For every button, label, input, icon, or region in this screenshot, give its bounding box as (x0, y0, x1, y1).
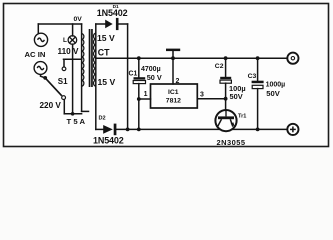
transistor Q1 2N3055 (215, 110, 236, 131)
svg-text:1000µ: 1000µ (266, 81, 286, 88)
output terminal 0V (287, 53, 298, 64)
svg-text:T 5 A: T 5 A (67, 117, 86, 126)
lamp L (68, 36, 77, 45)
svg-text:15 V: 15 V (98, 77, 116, 87)
svg-text:3: 3 (200, 91, 204, 98)
output terminal plus (287, 124, 298, 135)
wire 110V tap (64, 58, 82, 60)
capacitor C2 (220, 77, 231, 79)
wire ground stem (172, 51, 174, 58)
svg-text:Tr1: Tr1 (238, 113, 246, 119)
svg-text:CT: CT (98, 48, 110, 58)
svg-text:0V: 0V (74, 16, 83, 23)
svg-text:AC IN: AC IN (25, 50, 46, 59)
wire D2 anode (96, 128, 103, 130)
wire C2 branch upper (225, 58, 227, 77)
wire D1 anode (96, 23, 105, 25)
wire bottom AC riser (41, 75, 46, 78)
wire lamp branch upper (72, 24, 74, 36)
svg-text:1N5402: 1N5402 (97, 8, 128, 18)
wire C1 branch upper (138, 58, 140, 77)
wire secondary baseline (95, 24, 97, 129)
svg-text:50V: 50V (230, 92, 243, 101)
junction bottom-C3 (256, 127, 260, 131)
wire 110V contact stub (63, 59, 65, 67)
wire bottom rail left (116, 128, 220, 130)
diode D1 (105, 18, 118, 30)
transformer T1 secondary winding (94, 33, 96, 86)
junction pin1 (137, 97, 141, 101)
svg-text:50 V: 50 V (147, 73, 162, 82)
wire primary bottom corner (82, 110, 89, 112)
wire D1 cathode (118, 23, 127, 25)
wire top rail 0V (96, 57, 287, 59)
wire base riser (225, 99, 227, 111)
AC source G1 (34, 33, 47, 46)
wire 0V top (38, 23, 81, 25)
junction bottom-D1 (126, 127, 130, 131)
svg-text:110 V: 110 V (58, 47, 79, 56)
junction bottom-C1 (137, 127, 141, 131)
transistor emitter lead with arrow (230, 119, 234, 126)
transistor base bar (218, 116, 234, 119)
svg-text:4700µ: 4700µ (141, 66, 161, 73)
svg-text:1: 1 (144, 91, 148, 98)
wire 220V contact stub (63, 100, 65, 114)
IC U1 7812 box (151, 84, 198, 108)
junction rail-pin2 (171, 56, 175, 60)
junction rail-C2 (224, 56, 228, 60)
wire C3 branch upper (257, 58, 259, 80)
svg-text:220 V: 220 V (40, 101, 62, 110)
svg-text:IC1: IC1 (168, 89, 179, 96)
AC source G2 (34, 62, 47, 75)
wire C3 branch lower (257, 89, 259, 130)
wire lamp branch lower (72, 44, 74, 114)
capacitor C3 (252, 81, 264, 84)
junction pin3 (224, 97, 228, 101)
svg-text:C3: C3 (248, 73, 257, 80)
wire D1 drop (127, 24, 129, 129)
transistor collector lead (217, 119, 221, 127)
transformer T1 core (89, 29, 91, 87)
junction fuse wire (71, 112, 75, 116)
wire riser top AC (37, 24, 39, 34)
switch S1 (45, 67, 66, 100)
wire C2 branch lower (225, 83, 227, 99)
border frame (4, 4, 329, 147)
svg-text:15 V: 15 V (97, 33, 115, 43)
svg-text:S1: S1 (58, 77, 68, 86)
svg-text:L: L (63, 37, 67, 44)
wire pin3 (197, 98, 225, 100)
wire fuse bottom (64, 113, 81, 115)
svg-text:7812: 7812 (166, 97, 181, 104)
svg-text:C2: C2 (215, 63, 224, 70)
svg-text:C1: C1 (129, 70, 138, 77)
capacitor C1 (134, 77, 146, 79)
wire pin2 riser (172, 58, 174, 84)
ground bar (166, 49, 180, 52)
wire bottom rail right (232, 128, 287, 130)
svg-text:1N5402: 1N5402 (93, 135, 124, 145)
svg-text:2: 2 (176, 78, 180, 85)
svg-text:D2: D2 (99, 115, 106, 121)
diode D2 (103, 124, 116, 136)
svg-text:50V: 50V (266, 89, 280, 98)
wire C1 branch lower (138, 84, 140, 130)
junction rail-C1 (137, 56, 141, 60)
junction switch pivot (43, 76, 47, 80)
wire pin1 (139, 98, 151, 100)
junction rail-C3 (256, 56, 260, 60)
transformer T1 primary winding (82, 34, 84, 87)
wire primary baseline (81, 24, 83, 111)
svg-text:2N3055: 2N3055 (217, 138, 246, 147)
